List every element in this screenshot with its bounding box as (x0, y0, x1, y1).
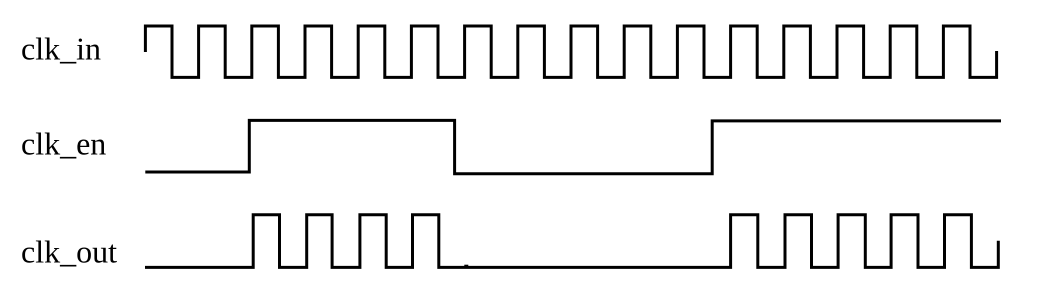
junction dot on clk_out low line (464, 265, 468, 269)
waveform clk_in (145, 26, 996, 77)
waveform clk_out (145, 215, 998, 268)
waveform clk_en (145, 120, 1001, 173)
svg-text:clk_out: clk_out (21, 234, 117, 270)
svg-text:clk_en: clk_en (21, 126, 106, 162)
svg-text:clk_in: clk_in (21, 31, 101, 67)
